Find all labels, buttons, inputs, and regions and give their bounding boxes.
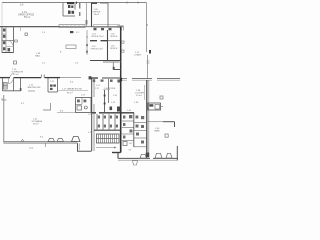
svg-text:86 m²: 86 m² — [67, 92, 73, 95]
dim line — [86, 3, 88, 26]
tick — [86, 51, 88, 53]
wire — [76, 2, 78, 5]
column marker — [165, 134, 168, 137]
wire — [93, 113, 95, 151]
wire — [137, 2, 139, 4]
east wall thick — [146, 80, 148, 158]
node — [104, 95, 106, 97]
wire — [58, 90, 89, 92]
wire — [45, 77, 61, 79]
node — [120, 78, 122, 81]
wall y130 — [94, 129, 121, 131]
room labels grid — [91, 34, 118, 51]
toilet inset box — [76, 98, 92, 113]
wire — [2, 2, 147, 4]
node — [155, 105, 160, 110]
east wing wall — [120, 78, 122, 153]
fixture cluster — [110, 107, 121, 112]
wall y112 — [92, 112, 96, 114]
wire — [148, 80, 150, 158]
wire — [28, 90, 35, 92]
tick — [86, 36, 88, 38]
wire — [118, 159, 178, 161]
door recesses — [122, 41, 125, 43]
svg-text:LOBBY: LOBBY — [134, 55, 142, 57]
door jamb — [43, 75, 45, 78]
room 1.16 — [47, 78, 49, 92]
wire — [0, 26, 60, 28]
svg-text:1.36 STORE: 1.36 STORE — [104, 88, 116, 90]
wire — [102, 77, 121, 79]
table — [66, 45, 76, 49]
label 1.29 — [81, 95, 86, 97]
wire — [107, 3, 109, 27]
node — [113, 67, 115, 70]
small room x113 — [112, 63, 114, 70]
underline — [103, 88, 110, 90]
right room labels — [134, 52, 160, 133]
hook — [45, 143, 47, 147]
wire — [157, 79, 180, 81]
fixture — [77, 106, 82, 110]
wire — [57, 78, 59, 92]
dark box — [70, 31, 73, 33]
wire — [74, 3, 76, 10]
left room block — [1, 27, 3, 53]
inner divider — [76, 104, 83, 106]
wire — [121, 79, 127, 81]
tick — [86, 44, 88, 46]
south wall of wing step — [112, 152, 121, 154]
wire — [132, 78, 152, 80]
wire — [59, 25, 85, 28]
tick — [20, 27, 22, 31]
canopy — [48, 139, 55, 142]
svg-text:OFFICE: OFFICE — [110, 36, 118, 38]
circle fixture — [84, 106, 87, 109]
detail box top right — [148, 103, 161, 110]
door arc — [10, 74, 14, 78]
tick — [147, 62, 150, 64]
door jamb — [40, 75, 42, 78]
wire — [107, 40, 120, 42]
svg-text:OFFICE 14m²: OFFICE 14m² — [91, 48, 104, 51]
wire — [13, 78, 15, 91]
wire — [146, 24, 148, 26]
wire — [107, 30, 109, 61]
wire — [13, 27, 15, 53]
west wing wall double — [91, 78, 93, 151]
corridor wall mid — [91, 77, 98, 79]
tick — [21, 140, 24, 142]
fixture u — [123, 142, 127, 146]
wire — [90, 60, 121, 62]
junction — [89, 76, 92, 79]
dim hatch — [103, 61, 121, 63]
inner divider — [81, 98, 83, 105]
room label — [93, 9, 102, 16]
svg-text:48 m²: 48 m² — [33, 123, 39, 126]
dividers — [122, 121, 146, 147]
right walkway wall — [121, 78, 127, 80]
fixtures — [68, 5, 74, 14]
label 1.17 — [62, 88, 82, 95]
label — [129, 143, 134, 152]
room divider narrow — [104, 90, 106, 112]
door arc — [8, 41, 13, 46]
arrowhead — [114, 147, 117, 149]
wire — [79, 12, 81, 16]
wire — [100, 2, 108, 4]
wire — [3, 90, 21, 92]
door — [15, 40, 18, 42]
step below — [133, 161, 138, 165]
wire — [2, 33, 6, 35]
corner step — [78, 143, 92, 151]
canopy — [57, 139, 64, 142]
ticks boundary — [147, 60, 150, 62]
hall label — [21, 103, 64, 150]
wire — [101, 40, 108, 42]
wire — [174, 122, 176, 127]
labels small rooms — [88, 88, 132, 134]
canopy — [140, 154, 147, 158]
label 1.32 — [96, 85, 101, 87]
room label 1.01 — [18, 4, 35, 20]
svg-text:YARD: YARD — [154, 130, 160, 133]
svg-text:56 m²: 56 m² — [24, 16, 30, 19]
wall x144.5 — [144, 85, 146, 100]
fixtures — [77, 100, 86, 103]
marker — [25, 33, 27, 35]
svg-text:OFFICE: OFFICE — [110, 48, 118, 50]
wire — [57, 111, 75, 113]
bottom-left rooms — [2, 78, 4, 91]
wire — [153, 157, 178, 159]
wire — [93, 78, 95, 97]
mullions — [63, 25, 83, 28]
stair hatch — [3, 83, 7, 90]
node — [20, 88, 22, 91]
right thick wall — [120, 27, 122, 78]
node — [104, 103, 106, 105]
stall fixtures — [123, 115, 144, 144]
wire — [79, 3, 81, 9]
wire — [60, 26, 123, 28]
east wall — [176, 146, 178, 160]
wire — [146, 3, 148, 53]
node — [149, 104, 153, 106]
middle hall details — [86, 30, 88, 55]
hook corner — [117, 26, 123, 31]
wire — [117, 27, 122, 30]
canopy — [166, 153, 172, 158]
corner lines — [43, 103, 51, 110]
canopy — [155, 153, 162, 158]
wire — [14, 77, 42, 79]
wire — [6, 46, 14, 48]
wc room top — [62, 3, 64, 16]
node corner dark — [146, 153, 149, 158]
stair arrow — [97, 138, 120, 140]
svg-text:HALL: HALL — [35, 55, 41, 58]
room 1.05 top middle — [91, 3, 93, 27]
wire — [94, 25, 120, 28]
big hall left wall — [3, 95, 5, 143]
column marker — [160, 96, 163, 99]
wire — [67, 2, 74, 4]
door arc — [9, 79, 14, 84]
wc stalls row y114-130 — [97, 114, 115, 130]
wire — [20, 78, 22, 91]
stair arrow line — [96, 147, 114, 149]
wall x108.5 — [108, 79, 110, 103]
tick — [161, 106, 164, 108]
staircase — [97, 134, 120, 143]
wire — [48, 91, 58, 93]
svg-text:22 m²: 22 m² — [136, 94, 142, 97]
corridor wall left — [0, 77, 10, 79]
wire — [117, 153, 119, 159]
door recesses — [122, 50, 125, 52]
wire — [2, 40, 14, 42]
node — [2, 98, 7, 100]
piers — [94, 28, 112, 31]
room grid x90-120 — [90, 40, 97, 42]
wire — [157, 78, 180, 80]
stall fixtures — [98, 116, 118, 128]
label — [35, 32, 80, 58]
canopy big — [72, 137, 81, 142]
wire — [2, 52, 14, 54]
south wall left wing — [4, 141, 78, 143]
fixtures — [50, 85, 56, 91]
svg-text:MEETING RM: MEETING RM — [28, 87, 41, 89]
label corridor — [11, 52, 79, 84]
svg-text:1.17 GREAT ROOM: 1.17 GREAT ROOM — [62, 88, 82, 91]
wire — [163, 121, 175, 123]
wire — [1, 3, 3, 27]
wire — [5, 27, 7, 53]
wire — [132, 79, 152, 81]
node A — [149, 50, 151, 54]
wire — [92, 2, 98, 4]
wire — [113, 69, 120, 71]
column marker — [14, 61, 17, 64]
wire — [93, 104, 95, 112]
wire — [63, 15, 75, 17]
wire — [60, 77, 81, 79]
wire — [99, 112, 134, 114]
wire — [78, 143, 80, 150]
bottom right outline — [118, 157, 150, 159]
svg-text:18 m²: 18 m² — [94, 13, 100, 16]
dim arrow — [86, 20, 88, 25]
wire — [4, 142, 78, 144]
label — [28, 81, 55, 89]
svg-text:32 m²: 32 m² — [13, 73, 19, 76]
wire — [126, 2, 128, 4]
fixtures lower rooms — [93, 79, 120, 82]
svg-text:OFFICE 12m²: OFFICE 12m² — [91, 35, 104, 38]
shower block x122-146 — [133, 113, 135, 147]
east yard wall y122 — [147, 121, 163, 123]
fixtures — [3, 29, 10, 52]
wire — [147, 55, 149, 79]
